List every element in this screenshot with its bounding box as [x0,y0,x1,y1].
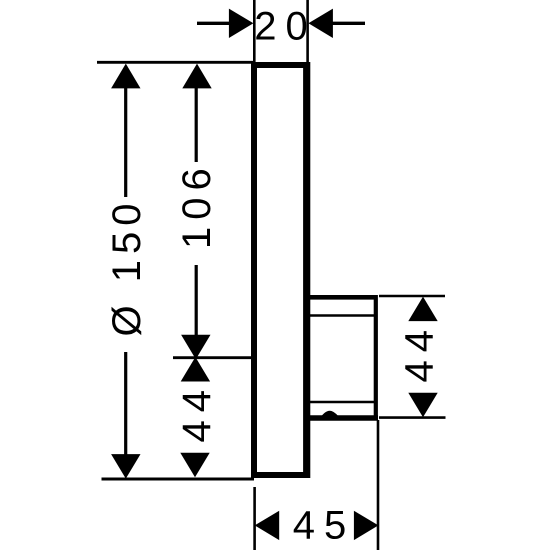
valve body box top edge [307,295,376,300]
extension line 44 right top [379,295,445,298]
dimension 20 arrow left-pointing [308,9,333,38]
dimension 150 line lower [124,352,127,456]
extension line 45 left [253,487,256,550]
svg-text:45: 45 [293,504,356,548]
svg-text:Ø 150: Ø 150 [105,198,149,337]
dimension 20 right tail [333,22,366,25]
dimension 44 right arrow down [408,393,437,418]
dimension 45 arrow right-pointing [354,511,379,540]
dimension 106 line lower [195,265,198,336]
dimension 150 arrow down [111,454,140,479]
dimension 44 left arrow down [180,453,209,478]
svg-text:106: 106 [175,161,219,249]
extension line bottom horizontal [102,478,255,481]
dimension 44 left arrow up [181,357,210,382]
dimension 150 arrow up [111,64,140,89]
dimension 150 line upper [124,88,127,197]
svg-text:44: 44 [175,382,219,443]
seal bump on box bottom edge [319,411,342,421]
extension line 44 right bottom [379,416,446,419]
dimension 106 arrow down [181,335,210,360]
extension line 20 right [306,0,309,62]
valve body box right edge [374,295,378,420]
dimension 44 right arrow up [408,297,437,322]
dimension 106 arrow up [182,64,211,89]
dimension 45 arrow left-pointing [255,511,280,540]
valve body box bottom edge with seal bump [307,415,378,421]
plate (escutcheon side view) [254,65,307,475]
extension line 20 left [253,0,256,62]
extension line 45 right [377,420,380,550]
extension line mid horizontal (box centre) [173,356,251,359]
svg-text:20: 20 [254,5,317,49]
valve body inner line top [310,314,374,317]
plate right edge (thicker front face) [303,62,310,478]
dimension 20 left tail [197,22,231,25]
valve body inner line bottom [310,401,374,404]
dimension 20 arrow right-pointing [229,9,254,38]
svg-text:44: 44 [398,322,442,383]
dimension 106 line upper [195,88,198,162]
extension line top horizontal [97,61,254,64]
